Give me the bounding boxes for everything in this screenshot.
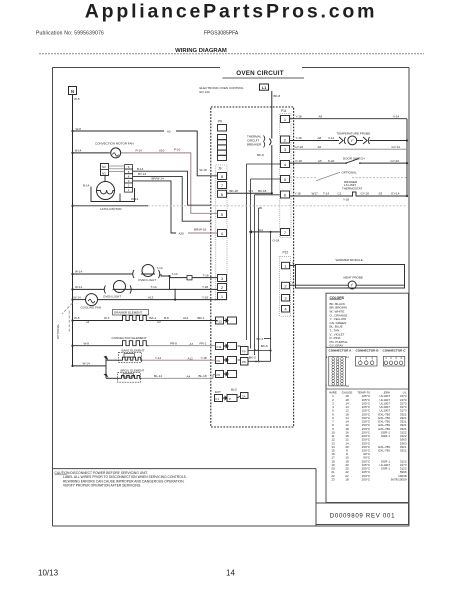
- connector A pin grid: [326, 355, 350, 388]
- svg-text:GY-18: GY-18: [361, 192, 370, 196]
- svg-text:BR/W-18: BR/W-18: [194, 227, 206, 231]
- svg-text:BY-14: BY-14: [138, 172, 146, 176]
- svg-text:P11: P11: [281, 109, 287, 113]
- svg-text:A8: A8: [318, 136, 322, 140]
- svg-text:W-14: W-14: [74, 295, 81, 299]
- svg-text:GY-14: GY-14: [392, 145, 401, 149]
- wire P12 pin2 to probe: [290, 284, 349, 286]
- thermostat S2 drawer limit: [350, 192, 359, 196]
- J9 pin 7: [218, 182, 227, 189]
- wire pin7 A11: [249, 231, 281, 233]
- svg-text:1: 1: [221, 294, 224, 299]
- warmer module box: [296, 265, 405, 289]
- svg-text:W-14: W-14: [83, 362, 90, 366]
- svg-text:C1: C1: [338, 192, 342, 196]
- svg-text:A2: A2: [167, 130, 171, 134]
- svg-text:EXT: EXT: [215, 390, 221, 394]
- svg-text:3: 3: [284, 147, 287, 152]
- svg-text:P8: P8: [242, 360, 246, 364]
- svg-text:GY-18: GY-18: [295, 145, 304, 149]
- P11 pin 2: [281, 136, 290, 143]
- relay F5 row (broil): [216, 371, 237, 378]
- thermal breaker symbol on BK-8 line: [264, 136, 265, 148]
- svg-text:BR/W-14: BR/W-14: [152, 177, 164, 181]
- svg-text:2: 2: [390, 356, 392, 360]
- svg-text:A20: A20: [179, 231, 185, 235]
- svg-text:WIRING DIAGRAM: WIRING DIAGRAM: [175, 48, 227, 54]
- svg-text:T-14: T-14: [151, 285, 157, 289]
- svg-text:1: 1: [385, 356, 387, 360]
- control board U1 dashed box: [211, 107, 294, 427]
- svg-text:7: 7: [284, 230, 287, 235]
- svg-text:BLO: BLO: [231, 388, 238, 392]
- relay cluster interconnects: [238, 232, 271, 361]
- wire P-14 fan right to J9 pin5: [121, 153, 217, 213]
- P12 pin 4: [282, 306, 290, 313]
- wire L1 down to board: [271, 91, 273, 139]
- svg-text:D0009809 REV 001: D0009809 REV 001: [330, 512, 395, 519]
- svg-text:C2: C2: [157, 320, 161, 324]
- svg-text:W-14: W-14: [75, 285, 82, 289]
- svg-text:Y-18: Y-18: [295, 192, 301, 196]
- svg-text:Y-18: Y-18: [296, 114, 302, 118]
- wire row2 pin2: [290, 140, 340, 142]
- svg-text:AppliancePartsPros.com: AppliancePartsPros.com: [85, 1, 377, 23]
- relay F9 box: [241, 347, 249, 355]
- junction dots on bus: [71, 130, 73, 367]
- svg-text:10/13: 10/13: [38, 569, 59, 578]
- relay P8 box: [241, 358, 249, 366]
- svg-text:P-10: P-10: [174, 148, 181, 152]
- wire row5 optional: [290, 177, 317, 179]
- J9 pin 2: [218, 284, 227, 291]
- svg-text:3678/10059: 3678/10059: [391, 478, 407, 482]
- svg-text:10: 10: [346, 384, 350, 388]
- svg-text:W-8: W-8: [76, 127, 82, 131]
- svg-text:t°: t°: [351, 139, 354, 143]
- svg-text:P-20: P-20: [328, 159, 335, 163]
- svg-text:BK-18: BK-18: [230, 189, 239, 193]
- wire bake element row: [106, 359, 121, 361]
- svg-text:Y-18: Y-18: [296, 136, 302, 140]
- svg-text:BK-18: BK-18: [258, 189, 267, 193]
- P11 pin 4: [281, 161, 290, 168]
- color code box: [326, 293, 409, 502]
- svg-text:3: 3: [395, 356, 397, 360]
- latch connector 6-pin stack: [125, 165, 133, 193]
- wire J9-6 to center node: [227, 192, 272, 194]
- svg-text:5: 5: [284, 177, 287, 182]
- rev box: [316, 503, 409, 525]
- svg-text:3: 3: [371, 356, 373, 360]
- caution divider: [53, 468, 317, 470]
- svg-text:P-18: P-18: [296, 159, 303, 163]
- motor M1 convection fan: [111, 148, 121, 158]
- wire cooling fan left: [73, 299, 86, 301]
- resistor R2 convection element: [120, 341, 149, 346]
- relay cluster wire labels: [249, 337, 268, 364]
- svg-text:BA-1: BA-1: [150, 316, 157, 320]
- svg-text:BROIL ELEMENT: BROIL ELEMENT: [121, 369, 145, 373]
- wires latch connector to control: [133, 171, 211, 233]
- svg-text:A5: A5: [318, 159, 322, 163]
- caution text: [55, 471, 187, 488]
- connector P9 stack: [218, 125, 227, 161]
- svg-text:3321: 3321: [400, 449, 407, 453]
- probe RT2 meat probe: [348, 281, 356, 289]
- svg-text:T-14: T-14: [323, 192, 329, 196]
- wire row6 pin6: [290, 195, 351, 197]
- connector C pin block: [383, 356, 405, 366]
- wire table header: [329, 390, 407, 394]
- svg-text:7: 7: [221, 183, 224, 188]
- svg-text:2A: 2A: [242, 395, 246, 399]
- P11 pin 1: [281, 116, 290, 123]
- svg-text:COLORS: COLORS: [330, 296, 345, 300]
- svg-text:1: 1: [284, 117, 287, 122]
- J9 pin 1: [218, 293, 227, 300]
- svg-text:W-8: W-8: [74, 97, 80, 101]
- svg-text:CONVECTION ELEMENT: CONVECTION ELEMENT: [112, 336, 147, 340]
- wire gray across: [148, 205, 407, 207]
- svg-text:V-14: V-14: [328, 136, 335, 140]
- svg-text:F11: F11: [217, 345, 222, 349]
- svg-text:OPTIONAL: OPTIONAL: [342, 171, 358, 175]
- svg-text:W17: W17: [312, 192, 319, 196]
- svg-text:B-8: B-8: [164, 316, 169, 320]
- svg-text:P12: P12: [283, 251, 289, 255]
- node L1: [260, 84, 269, 90]
- svg-text:GY-20: GY-20: [391, 159, 400, 163]
- wire P12 pin1 to module: [290, 264, 296, 266]
- svg-text:THERMOSTAT: THERMOSTAT: [342, 187, 362, 191]
- svg-text:2: 2: [284, 138, 287, 143]
- P11 pin 6: [281, 191, 290, 198]
- svg-text:F6: F6: [217, 359, 221, 363]
- svg-text:1: 1: [326, 355, 328, 359]
- svg-text:1: 1: [128, 188, 130, 192]
- svg-text:2: 2: [365, 356, 367, 360]
- svg-text:A7: A7: [190, 342, 194, 346]
- wire latch bottom: [73, 205, 149, 207]
- wire A2 branch to J9 pin8: [73, 130, 165, 132]
- wire A20 to J9 pin4: [188, 232, 218, 234]
- J9 pin 6: [218, 190, 227, 197]
- svg-text:BK-6: BK-6: [261, 344, 268, 348]
- wire row3 pin3: [290, 148, 408, 150]
- relay F11 row (convection): [216, 343, 237, 350]
- svg-text:OVEN CIRCUIT: OVEN CIRCUIT: [236, 70, 284, 77]
- svg-text:A6: A6: [318, 145, 322, 149]
- svg-text:VERIFY PROPER OPERATION AFTER: VERIFY PROPER OPERATION AFTER SERVICING.: [63, 484, 141, 488]
- svg-text:CONVECTION MOTOR FAN: CONVECTION MOTOR FAN: [95, 142, 134, 146]
- wire W-14 feed to elements: [73, 365, 107, 367]
- svg-text:A10: A10: [159, 149, 165, 153]
- svg-text:3: 3: [284, 296, 287, 301]
- svg-text:PR-8: PR-8: [170, 341, 177, 345]
- svg-text:F1: F1: [216, 397, 220, 401]
- lamp E2 oven light: [103, 281, 157, 299]
- wire table rows: [331, 394, 407, 481]
- svg-text:W-14: W-14: [131, 197, 138, 201]
- header rule: [39, 53, 424, 55]
- svg-text:4: 4: [284, 162, 287, 167]
- svg-text:A11: A11: [258, 228, 263, 232]
- relay F13 row (drawer): [216, 317, 237, 324]
- wire convection element row: [73, 345, 120, 347]
- svg-text:F9: F9: [242, 350, 246, 354]
- J9 pin 4: [218, 230, 227, 237]
- svg-text:t°: t°: [351, 283, 354, 287]
- svg-text:CONNECTOR A: CONNECTOR A: [329, 348, 353, 352]
- svg-text:1: 1: [284, 264, 287, 269]
- lamp E1 oven light: [133, 265, 163, 282]
- svg-text:W-1: W-1: [104, 316, 110, 320]
- P11 pin 3: [281, 146, 290, 153]
- svg-text:A-6: A-6: [255, 348, 260, 352]
- svg-text:6: 6: [284, 193, 287, 198]
- svg-text:DRAWER ELEMENT: DRAWER ELEMENT: [114, 311, 142, 315]
- P12 pin 1: [282, 262, 290, 269]
- svg-text:WARMER MODULE: WARMER MODULE: [336, 258, 363, 262]
- wire cooling fan right to pin1: [98, 299, 218, 301]
- svg-text:A9: A9: [319, 114, 323, 118]
- svg-text:OPTIONAL: OPTIONAL: [56, 323, 60, 339]
- wire light1 right to pin3: [141, 274, 170, 276]
- svg-text:T-18: T-18: [203, 273, 209, 277]
- svg-text:COOLING FAN: COOLING FAN: [81, 306, 102, 310]
- svg-text:F5: F5: [217, 373, 221, 377]
- latch motor bracket: [91, 187, 135, 202]
- switch S1 door switch: [345, 162, 347, 164]
- svg-text:6: 6: [221, 192, 224, 197]
- svg-text:N: N: [71, 89, 74, 94]
- svg-text:BREAKER: BREAKER: [247, 143, 262, 147]
- J9 pin 3: [218, 275, 227, 282]
- svg-text:TEMPERATURE PROBE: TEMPERATURE PROBE: [337, 131, 371, 135]
- svg-text:V-14: V-14: [393, 114, 400, 118]
- P12 pin 2: [282, 282, 290, 289]
- svg-text:Y-18: Y-18: [202, 285, 208, 289]
- svg-text:200°C: 200°C: [362, 478, 371, 482]
- svg-text:W-8: W-8: [74, 316, 80, 320]
- svg-text:4: 4: [400, 356, 402, 360]
- connector section divider: [326, 346, 409, 348]
- svg-text:BR-1: BR-1: [198, 316, 205, 320]
- svg-text:BL-18: BL-18: [199, 374, 207, 378]
- wire light1 left: [73, 273, 134, 275]
- svg-text:A12: A12: [188, 356, 194, 360]
- wire right bus vertical: [406, 119, 408, 196]
- svg-text:Y-19: Y-19: [202, 295, 208, 299]
- P11 pin 7: [281, 229, 290, 236]
- connector B pin block: [356, 356, 378, 366]
- svg-text:2: 2: [128, 184, 130, 188]
- svg-text:SGR-1: SGR-1: [381, 467, 391, 471]
- svg-text:5: 5: [128, 170, 130, 174]
- svg-text:u1: u1: [86, 320, 90, 324]
- svg-text:4: 4: [128, 174, 130, 178]
- svg-text:1: 1: [326, 383, 328, 387]
- drawer element label box: [113, 310, 149, 316]
- svg-text:BL-14: BL-14: [154, 374, 162, 378]
- svg-text:V: V: [292, 281, 294, 285]
- wire table divider: [326, 388, 409, 390]
- P12 pin 3: [282, 295, 290, 302]
- wire lights parallel riser: [174, 289, 176, 300]
- svg-text:A13: A13: [148, 295, 154, 299]
- svg-text:P-14: P-14: [136, 149, 143, 153]
- svg-text:P: P: [229, 397, 231, 401]
- wire B-14 fan left: [73, 152, 110, 154]
- svg-text:CONNECTOR C: CONNECTOR C: [383, 348, 407, 352]
- svg-text:CONNECTOR B: CONNECTOR B: [356, 348, 380, 352]
- svg-text:4: 4: [284, 307, 287, 312]
- wire light2 right to pin2: [113, 288, 218, 290]
- svg-text:LATCH MOTOR: LATCH MOTOR: [100, 207, 122, 211]
- node N box: [69, 87, 77, 95]
- J9 pin 5: [218, 211, 227, 218]
- svg-text:23: 23: [331, 478, 335, 482]
- svg-text:B-14: B-14: [75, 149, 82, 153]
- svg-text:3: 3: [128, 179, 130, 183]
- svg-text:W1: W1: [249, 189, 254, 193]
- J9 pin 8: [218, 173, 227, 180]
- svg-text:3: 3: [221, 276, 224, 281]
- svg-text:W-8: W-8: [84, 341, 90, 345]
- svg-text:PR-1: PR-1: [200, 341, 207, 345]
- internal wire bundle verticals: [247, 164, 281, 362]
- svg-text:S3: S3: [379, 192, 383, 196]
- svg-text:Y: Y: [292, 261, 294, 265]
- svg-text:FPGS3085PFA: FPGS3085PFA: [204, 31, 239, 37]
- svg-text:T-14: T-14: [172, 272, 178, 276]
- svg-text:6: 6: [128, 165, 130, 169]
- svg-text:EXL-780: EXL-780: [378, 449, 390, 453]
- P11 pin 5: [281, 176, 290, 183]
- svg-text:GY-14: GY-14: [391, 192, 400, 196]
- svg-text:4: 4: [221, 231, 224, 236]
- svg-text:N3: N3: [102, 172, 106, 176]
- heater H1 bake element dashed box: [119, 352, 142, 362]
- svg-text:W-18: W-18: [200, 168, 207, 172]
- svg-text:MEAT PROBE: MEAT PROBE: [344, 275, 363, 279]
- svg-text:Y-14: Y-14: [155, 356, 161, 360]
- latch switch box N2 N3: [101, 164, 109, 176]
- svg-text:OVEN LIGHT: OVEN LIGHT: [103, 295, 121, 299]
- wire drawer element row: [73, 320, 120, 322]
- svg-text:18: 18: [345, 478, 349, 482]
- svg-text:2: 2: [284, 284, 287, 289]
- svg-text:Y-18: Y-18: [201, 356, 207, 360]
- motor M2 latch motor: [97, 182, 115, 200]
- svg-text:O-18: O-18: [273, 239, 280, 243]
- svg-text:B-14: B-14: [137, 167, 144, 171]
- wire row4 pin4: [290, 162, 346, 164]
- svg-text:A14: A14: [183, 316, 189, 320]
- resistor R1 drawer element: [120, 316, 149, 321]
- wires latch box to connector: [109, 166, 125, 172]
- svg-text:N2: N2: [102, 165, 106, 169]
- svg-text:L1: L1: [262, 85, 267, 90]
- svg-text:21: 21: [346, 355, 350, 359]
- svg-text:T-14: T-14: [157, 266, 163, 270]
- relay F6 row (bake): [216, 357, 237, 364]
- caution vertical: [315, 469, 317, 526]
- svg-text:BK-8: BK-8: [257, 153, 264, 157]
- wire row1 pin1: [290, 118, 408, 120]
- svg-text:BK-3: BK-3: [257, 337, 264, 341]
- svg-text:J9: J9: [218, 167, 222, 171]
- svg-text:P9: P9: [218, 120, 222, 124]
- outer frame: [53, 68, 410, 527]
- wire light2 left: [73, 288, 105, 290]
- wire broil element row: [106, 377, 120, 379]
- svg-text:W-14: W-14: [75, 270, 82, 274]
- optional dash marks: [62, 303, 73, 332]
- wire light1 down to light2 row: [169, 276, 171, 289]
- wire neutral bus: [72, 95, 74, 367]
- svg-text:B-14: B-14: [83, 184, 90, 188]
- svg-text:1: 1: [360, 356, 362, 360]
- svg-text:OVEN LIGHT: OVEN LIGHT: [138, 278, 156, 282]
- svg-text:Y-18: Y-18: [343, 198, 349, 202]
- svg-text:BK-8: BK-8: [274, 94, 281, 98]
- motor M3 cooling fan: [86, 294, 98, 306]
- svg-text:5: 5: [221, 212, 224, 217]
- svg-text:BAKE ELEMENT: BAKE ELEMENT: [122, 348, 145, 352]
- probe RT1 connector and bulb: [339, 137, 343, 144]
- svg-text:A4: A4: [187, 374, 191, 378]
- svg-text:8: 8: [221, 174, 224, 179]
- svg-text:EO 100: EO 100: [200, 90, 211, 94]
- svg-text:2: 2: [221, 285, 224, 290]
- svg-text:Publication No: 5995639076: Publication No: 5995639076: [36, 31, 104, 37]
- svg-text:SGR-1: SGR-1: [381, 434, 391, 438]
- svg-text:14: 14: [226, 569, 235, 578]
- heater H2 broil element dashed box: [118, 373, 141, 383]
